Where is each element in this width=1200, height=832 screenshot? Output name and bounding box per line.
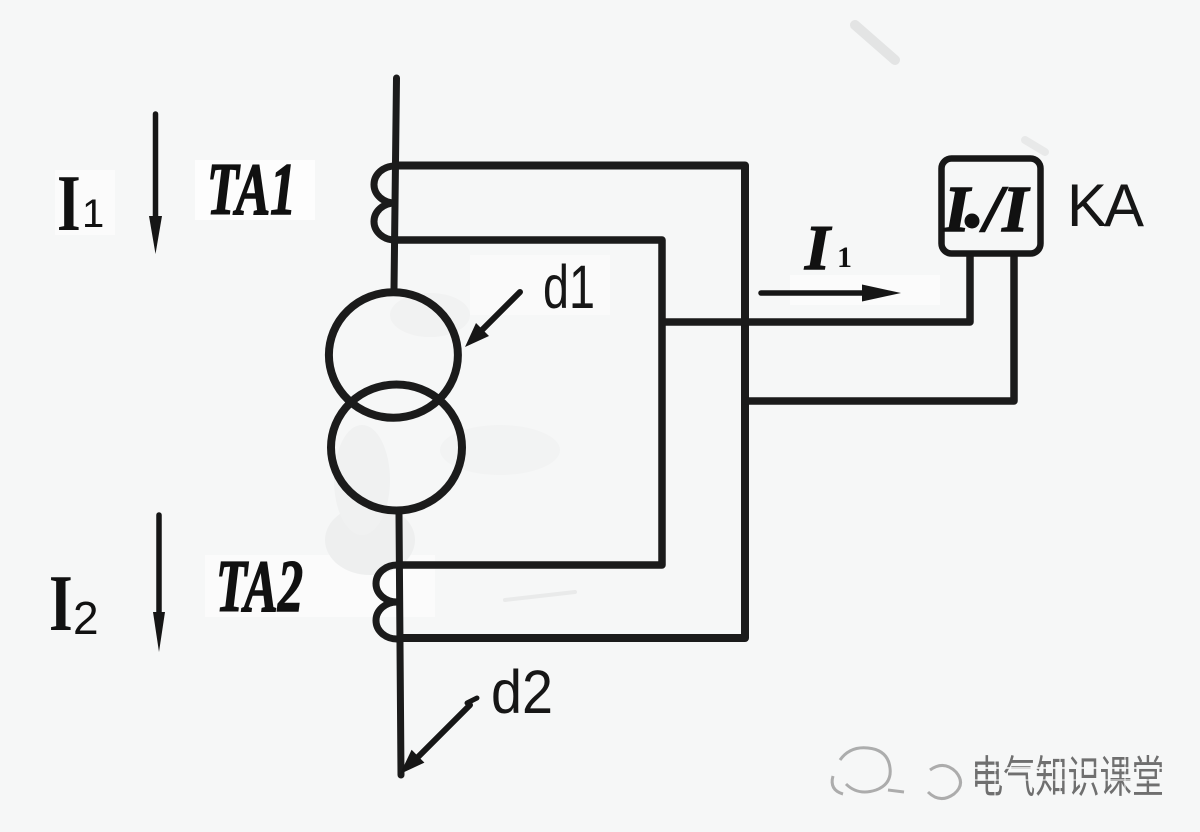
transformer winding circle (upper)	[329, 292, 458, 418]
label I1 (current into relay)	[804, 212, 852, 283]
svg-text:电气知识课堂: 电气知识课堂	[971, 753, 1164, 802]
label I1 (primary current, left)	[57, 160, 104, 248]
svg-text:TA2: TA2	[216, 546, 303, 628]
relay KA ratio label I./I	[943, 173, 1030, 246]
current transformer TA1 winding	[374, 166, 395, 240]
svg-text:1: 1	[837, 241, 852, 274]
fault point d2 arrow	[400, 698, 477, 774]
arrow: primary current direction (top left)	[149, 114, 162, 254]
current flow arrow I1 to relay	[761, 285, 901, 302]
svg-text:d2: d2	[491, 658, 553, 726]
svg-text:I: I	[804, 212, 832, 283]
wire: relay KA right pin branch from outer loop	[745, 256, 1014, 401]
svg-text:2: 2	[73, 592, 99, 644]
wire: TA1 top terminal to outer loop down to TA2 bottom terminal	[395, 166, 745, 639]
svg-text:TA1: TA1	[207, 149, 296, 231]
wire: relay KA left pin branch from inner loop	[662, 256, 970, 322]
svg-text:I: I	[57, 160, 81, 248]
svg-text:1: 1	[82, 192, 104, 236]
arrow: primary current direction (bottom left)	[153, 515, 165, 652]
wire: TA1 bottom terminal to inner loop down to TA2 top terminal	[395, 240, 662, 565]
wire: primary conductor lower segment	[399, 514, 401, 775]
svg-text:I: I	[943, 173, 972, 246]
svg-text:/I: /I	[980, 173, 1030, 246]
watermark text 电气知识课堂	[971, 750, 1164, 802]
fault point d1 arrow	[465, 292, 520, 347]
svg-text:d1: d1	[543, 253, 595, 321]
relay KA box	[942, 159, 1041, 254]
transformer winding circle (lower)	[331, 385, 462, 511]
svg-text:KA: KA	[1067, 172, 1144, 239]
watermark logo scribble	[832, 748, 960, 799]
svg-text:I: I	[49, 560, 73, 648]
label I2 (primary current, left lower)	[49, 560, 99, 648]
wire: primary conductor upper segment	[394, 78, 397, 289]
current transformer TA2 winding	[376, 565, 397, 639]
